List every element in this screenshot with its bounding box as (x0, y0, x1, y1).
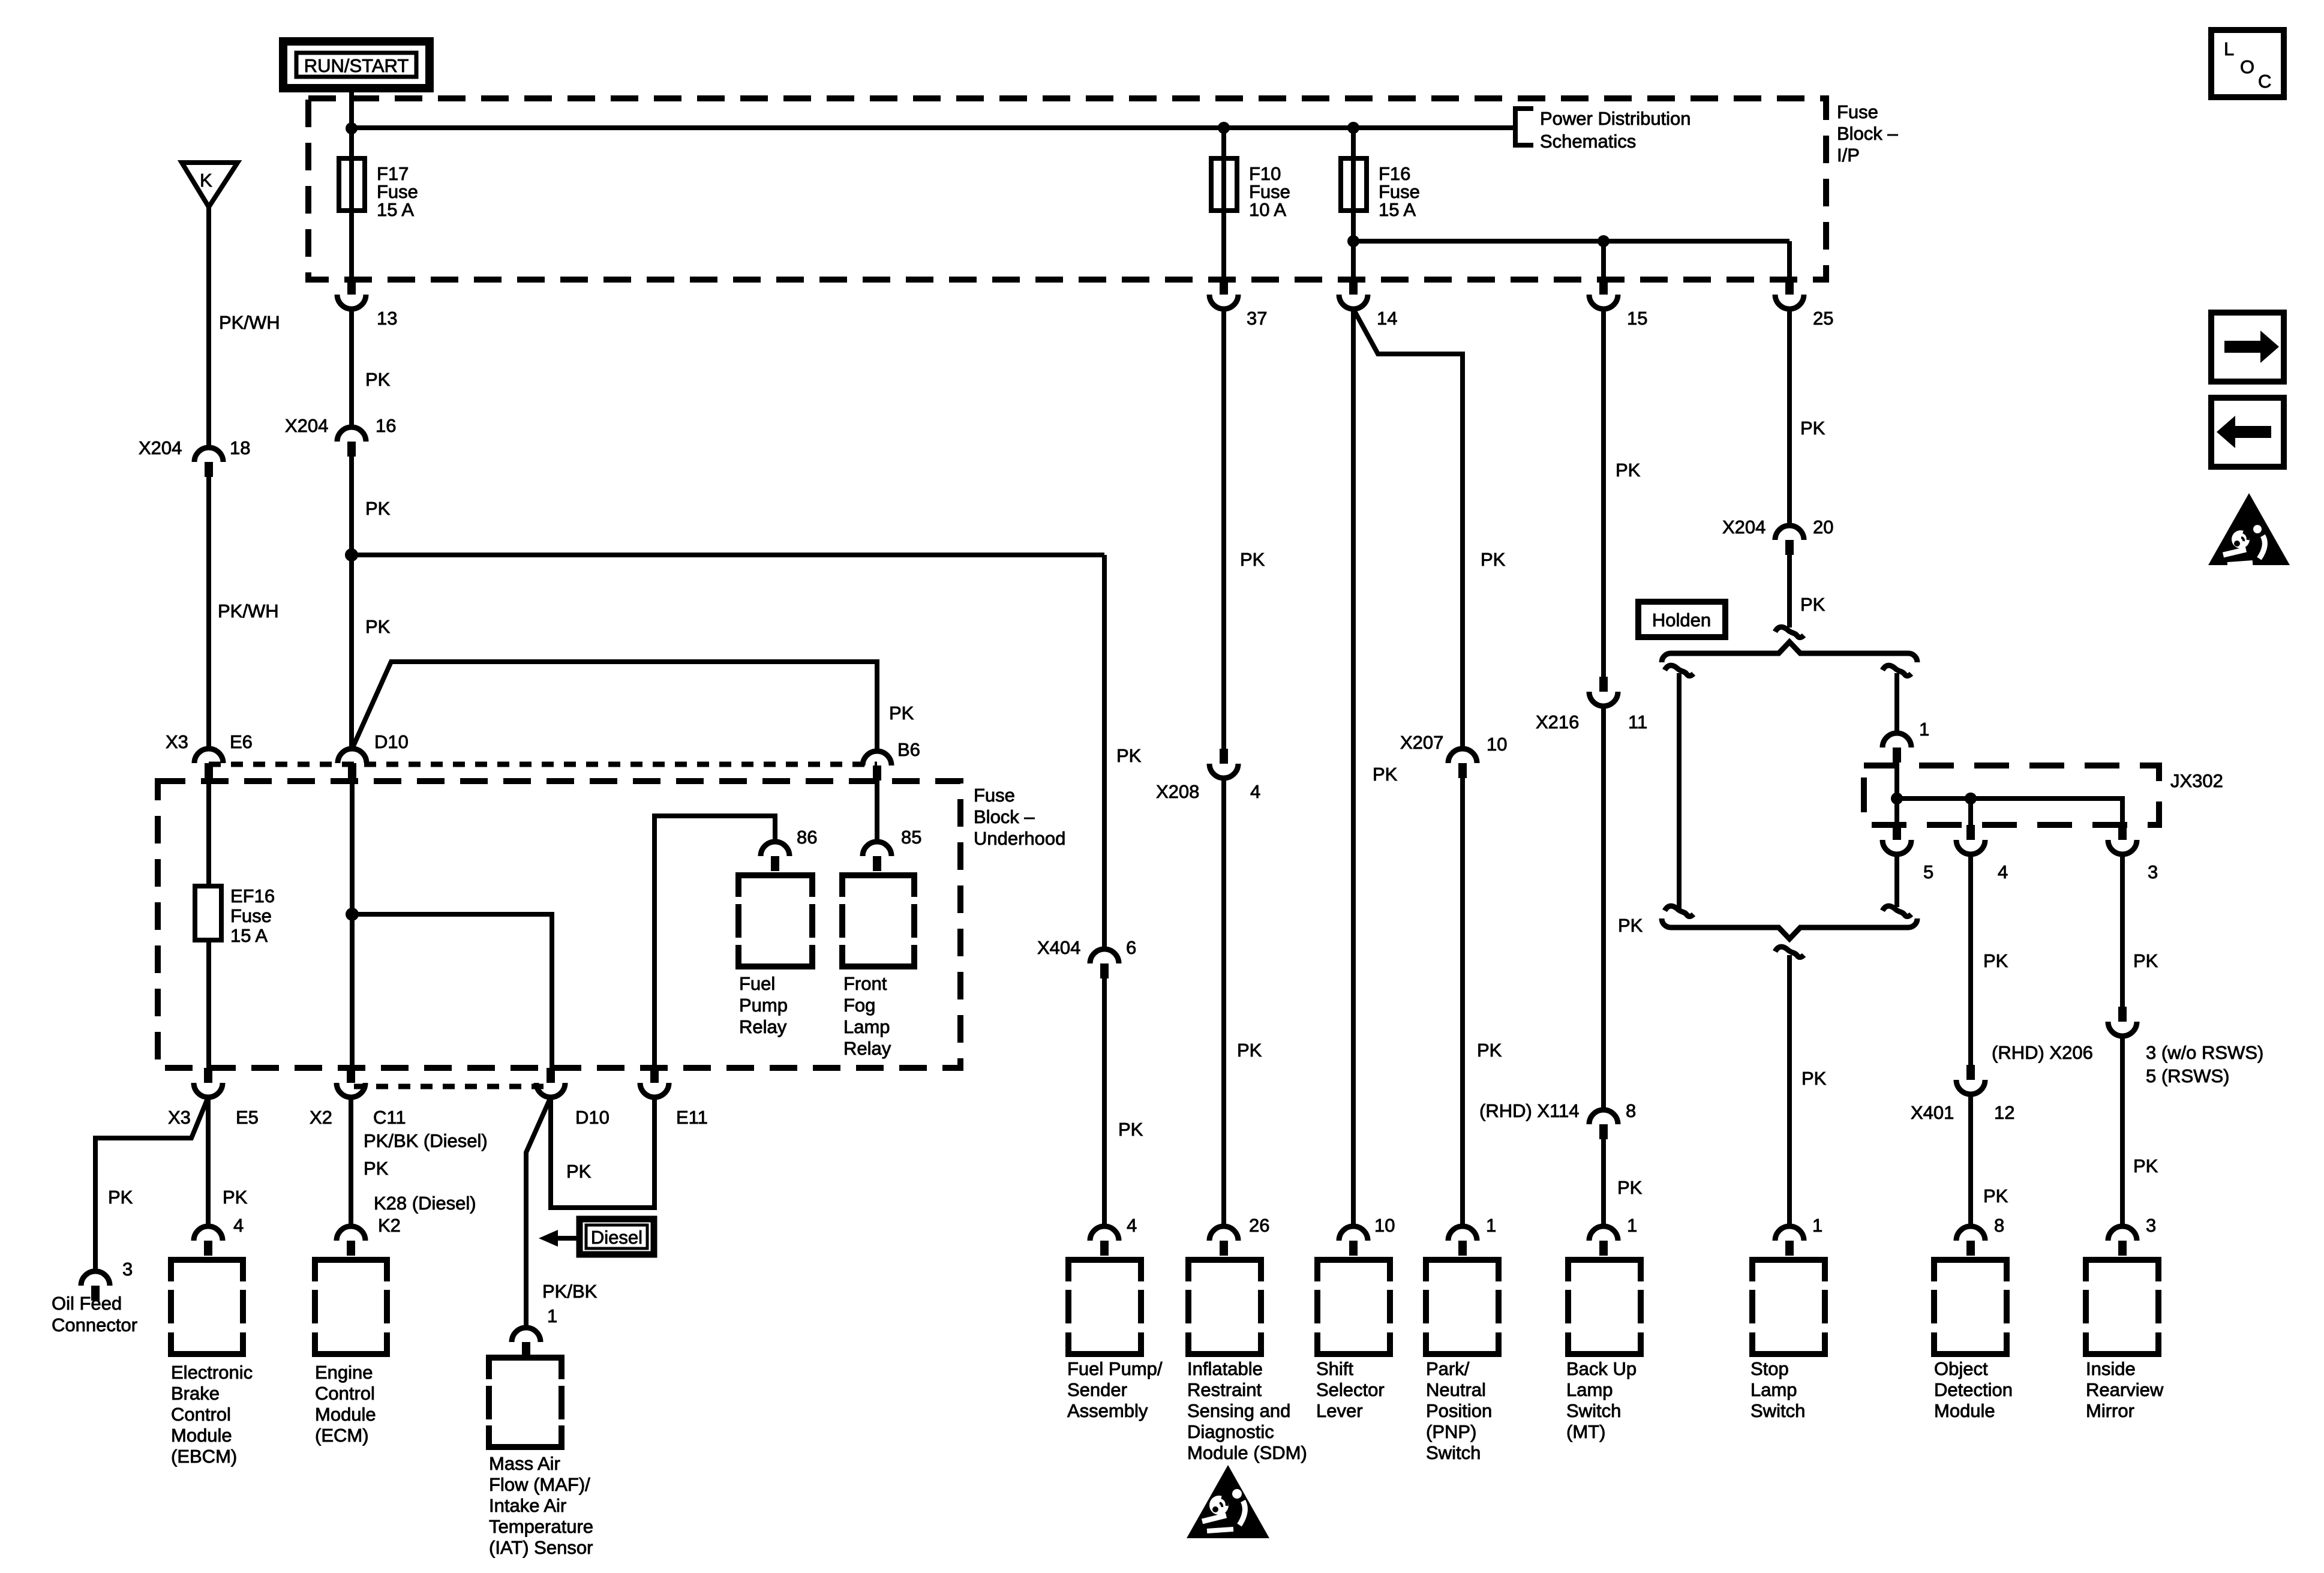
svg-text:X216: X216 (1536, 712, 1579, 733)
svg-text:(IAT) Sensor: (IAT) Sensor (489, 1537, 593, 1558)
wire E11 to fuel pump relay 86 (654, 816, 775, 1068)
svg-text:Module: Module (315, 1404, 376, 1425)
connector stop lamp switch pin 1 (1775, 1226, 1804, 1256)
connector X204 pin 20 (1775, 526, 1804, 555)
svg-text:Front: Front (843, 973, 887, 994)
junction F16 tap (1347, 122, 1359, 134)
component box SDM (1187, 1260, 1307, 1463)
wire X216 to X114 (PK) (1601, 706, 1606, 1110)
svg-text:25: 25 (1813, 308, 1833, 329)
svg-text:X401: X401 (1911, 1102, 1954, 1123)
svg-text:10: 10 (1487, 734, 1507, 755)
connector X3 pin E6 (194, 749, 223, 778)
wire X204-18 to E6 (PK/WH) (206, 477, 211, 749)
svg-text:PK: PK (223, 1187, 248, 1208)
wire X208 to SDM pin 26 (PK) (1221, 778, 1226, 1226)
svg-text:Rearview: Rearview (2086, 1379, 2164, 1400)
svg-text:15 A: 15 A (1379, 199, 1416, 220)
svg-text:Lamp: Lamp (1750, 1379, 1797, 1400)
fuse block I/P dashed outline (308, 98, 1826, 280)
svg-text:Fuel Pump/: Fuel Pump/ (1067, 1358, 1163, 1379)
svg-text:Switch: Switch (1566, 1400, 1621, 1421)
svg-text:Detection: Detection (1934, 1379, 2013, 1400)
svg-text:Schematics: Schematics (1540, 131, 1636, 152)
dotted connector row line (bottom) (354, 1084, 549, 1089)
symbol right arrow box (2211, 313, 2284, 382)
svg-text:15 A: 15 A (230, 925, 268, 946)
component box Fuel Pump / Sender Assembly (1067, 1260, 1163, 1421)
svg-text:Neutral: Neutral (1426, 1379, 1486, 1400)
wire JX302 pin3 to X206 (PK) (2120, 854, 2125, 1007)
svg-text:26: 26 (1249, 1215, 1269, 1236)
junction pin15 tap (1598, 235, 1610, 247)
svg-text:Lamp: Lamp (1566, 1379, 1613, 1400)
label Fuse Block - I/P (1837, 101, 1898, 166)
svg-text:85: 85 (901, 827, 921, 848)
wire ignition bus (horizontal) (352, 125, 1514, 130)
svg-text:X207: X207 (1400, 732, 1443, 753)
svg-text:Holden: Holden (1652, 610, 1711, 631)
label Oil Feed Connector (52, 1293, 137, 1335)
svg-text:Brake: Brake (171, 1383, 220, 1404)
svg-text:PK: PK (108, 1187, 133, 1208)
connector X401 pin 12 (1956, 1065, 1985, 1094)
wire F16 drop (1351, 128, 1356, 280)
dotted connector row line (top) (209, 762, 877, 767)
connector fuse block I/P pin 13 (337, 280, 366, 309)
connector MAF pin 1 (512, 1328, 541, 1357)
svg-text:PK: PK (364, 1158, 389, 1179)
svg-text:Block –: Block – (1837, 123, 1898, 144)
component box EBCM (171, 1260, 253, 1467)
svg-text:Switch: Switch (1750, 1400, 1805, 1421)
wire branch to X404 (PK) (352, 555, 1104, 949)
svg-text:PK/WH: PK/WH (219, 312, 280, 333)
svg-text:Inside: Inside (2086, 1358, 2136, 1379)
svg-text:X208: X208 (1156, 781, 1199, 802)
svg-text:37: 37 (1247, 308, 1267, 329)
svg-text:10: 10 (1374, 1215, 1395, 1236)
wire bundle left strand curl (bottom) (1665, 906, 1694, 916)
svg-text:16: 16 (376, 415, 396, 436)
svg-text:PK: PK (1801, 1068, 1827, 1089)
svg-text:Switch: Switch (1426, 1442, 1481, 1463)
svg-text:8: 8 (1626, 1100, 1636, 1121)
component box Shift Selector Lever (1316, 1260, 1390, 1421)
connector X204 pin 18 (194, 448, 223, 477)
svg-text:PK: PK (365, 616, 391, 637)
svg-text:18: 18 (230, 437, 250, 458)
svg-text:1: 1 (1627, 1215, 1637, 1236)
connector fuse block I/P pin 14 (1339, 280, 1368, 309)
wire pin25 to X204 pin 20 (PK) (1787, 309, 1792, 526)
junction F10 tap (1218, 122, 1230, 134)
svg-text:JX302: JX302 (2170, 770, 2223, 791)
fuse F16 15A (1341, 158, 1420, 220)
svg-text:PK: PK (1800, 594, 1825, 615)
svg-text:PK: PK (1240, 549, 1265, 570)
wire D10 to MAF sensor (PK/BK) (526, 1097, 551, 1328)
svg-text:Module (SDM): Module (SDM) (1187, 1442, 1307, 1463)
component box ECM (315, 1260, 387, 1446)
svg-text:X3: X3 (168, 1107, 191, 1128)
svg-text:Diesel: Diesel (591, 1227, 642, 1248)
svg-text:K2: K2 (378, 1215, 401, 1236)
node K (splice/antenna triangle) (182, 163, 238, 207)
wire X404 to fuel pump assembly (PK) (1102, 978, 1107, 1226)
wire F16 output branch to pins 15 and 25 (1353, 241, 1789, 280)
svg-text:D10: D10 (575, 1107, 609, 1128)
svg-text:PK: PK (889, 703, 914, 724)
svg-text:1: 1 (1812, 1215, 1822, 1236)
wire X206 to inside rearview mirror (PK) (2120, 1036, 2125, 1226)
svg-text:Lever: Lever (1316, 1400, 1363, 1421)
svg-text:PK: PK (1983, 950, 2008, 971)
svg-text:PK: PK (1617, 1177, 1643, 1198)
wire pin13 to X204 pin 16 (PK) (349, 309, 354, 427)
svg-text:PK/BK (Diesel): PK/BK (Diesel) (364, 1130, 488, 1151)
symbol airbag caution triangle (SDM) (1187, 1465, 1269, 1538)
svg-text:E6: E6 (230, 731, 253, 752)
svg-text:Power Distribution: Power Distribution (1540, 108, 1691, 129)
svg-text:13: 13 (377, 308, 397, 329)
svg-text:4: 4 (233, 1215, 244, 1236)
svg-text:(MT): (MT) (1566, 1421, 1605, 1442)
connector X2 pin C11 (337, 1068, 365, 1097)
svg-text:14: 14 (1377, 308, 1397, 329)
connector X206 (2108, 1007, 2137, 1036)
svg-text:Connector: Connector (52, 1314, 137, 1335)
svg-text:Module: Module (171, 1425, 232, 1446)
svg-text:Object: Object (1934, 1358, 1988, 1379)
svg-text:(PNP): (PNP) (1426, 1421, 1476, 1442)
connector fuse block I/P pin 25 (1775, 280, 1804, 309)
connector inside rearview mirror pin 3 (2108, 1226, 2137, 1256)
connector front fog relay pin 85 (863, 842, 891, 871)
connector JX302 pin 5 (1882, 825, 1911, 854)
svg-text:6: 6 (1126, 937, 1136, 958)
wire RUN/START drop to fuse F17 (349, 88, 354, 280)
wire JX302 pin4 to X401 (PK) (1968, 854, 1973, 1065)
symbol LOC reference box (2211, 30, 2284, 97)
svg-text:3: 3 (2148, 861, 2158, 882)
fuse F17 15A (339, 158, 418, 220)
node Diesel arrow head (539, 1230, 558, 1247)
svg-text:Mass Air: Mass Air (489, 1453, 560, 1474)
junction D10 internal branch (346, 908, 359, 921)
wire Diesel arrow (556, 1236, 580, 1241)
svg-text:3 (w/o RSWS): 3 (w/o RSWS) (2146, 1042, 2263, 1063)
svg-text:PK: PK (1118, 1119, 1143, 1140)
svg-text:PK/BK: PK/BK (542, 1281, 597, 1302)
wire pin14 to shift selector lever (PK) (1351, 309, 1356, 1226)
wire X114 to back up lamp switch (PK) (1601, 1139, 1606, 1226)
svg-text:PK: PK (1116, 745, 1142, 766)
wire bundle to stop lamp switch (PK) (1787, 955, 1792, 1226)
svg-text:Fuel: Fuel (739, 973, 775, 994)
svg-text:X3: X3 (166, 731, 188, 752)
svg-text:Electronic: Electronic (171, 1362, 253, 1383)
svg-text:Block –: Block – (974, 806, 1035, 827)
component box Stop Lamp Switch (1750, 1260, 1825, 1421)
svg-text:3: 3 (122, 1259, 133, 1280)
svg-text:D10: D10 (374, 731, 409, 752)
connector X204 pin 16 (337, 427, 366, 457)
svg-text:E11: E11 (676, 1107, 708, 1128)
connector object detection module pin 8 (1956, 1226, 1985, 1256)
svg-text:Temperature: Temperature (489, 1516, 593, 1537)
connector JX302 pin 3 (2108, 825, 2137, 854)
wire bundle left strand curl (top) (1665, 665, 1694, 676)
connector X216 pin 11 (1589, 677, 1618, 706)
svg-text:1: 1 (1486, 1215, 1496, 1236)
wire D10 to B6 (PK) (352, 662, 877, 751)
svg-text:1: 1 (1919, 719, 1929, 740)
wire bundle right strand curl (top) (1882, 665, 1911, 676)
svg-text:Lamp: Lamp (843, 1016, 890, 1037)
connector oil feed pin 3 (81, 1271, 110, 1301)
wire X204-20 to harness bundle (PK) (1787, 555, 1792, 628)
svg-text:Module: Module (1934, 1400, 1995, 1421)
junction block JX302 dashed outline (1864, 766, 2159, 825)
connector X404 pin 6 (1090, 949, 1119, 978)
node Power Distribution Schematics reference bracket (1515, 109, 1533, 145)
connector PNP pin 1 (1448, 1226, 1477, 1256)
connector back up lamp switch pin 1 (1589, 1226, 1618, 1256)
svg-text:O: O (2240, 56, 2254, 77)
fuse EF16 15A (195, 885, 275, 946)
svg-text:C11: C11 (373, 1107, 406, 1128)
svg-text:(EBCM): (EBCM) (171, 1446, 237, 1467)
wire D10 feed inside box (350, 777, 355, 1068)
wire stop lamp lead-out curl (1775, 947, 1804, 957)
svg-text:4: 4 (1250, 781, 1260, 802)
svg-text:K28 (Diesel): K28 (Diesel) (374, 1193, 476, 1214)
svg-text:Shift: Shift (1316, 1358, 1353, 1379)
connector JX302 pin 1 (1882, 733, 1911, 763)
wire E6 to EF16 to E5 (206, 777, 211, 1068)
junction JX302 pin4 tap (1965, 792, 1977, 804)
wire pin14 branch to X207 (PK) (1353, 309, 1463, 749)
wire bundle right strand (1894, 673, 1899, 733)
connector fuse block I/P pin 15 (1589, 280, 1618, 309)
wire E5 to EBCM pin 4 (PK) (206, 1097, 211, 1226)
svg-text:Mirror: Mirror (2086, 1400, 2134, 1421)
connector EBCM pin 4 (194, 1226, 223, 1256)
wire pin37 to X208 (PK) (1221, 309, 1226, 749)
svg-text:Relay: Relay (843, 1038, 891, 1059)
label Power Distribution Schematics (1540, 108, 1691, 152)
wire B6 to front fog lamp relay 85 (875, 777, 879, 842)
wire pin5 strand curl (1882, 906, 1911, 916)
node RUN/START (ignition feed box) (283, 41, 430, 88)
wire D10 to E11 jumper (PK) (551, 1097, 654, 1208)
connector X114 pin 8 (1589, 1110, 1618, 1139)
svg-text:Fuse: Fuse (1837, 101, 1878, 122)
component box Back Up Lamp Switch (1566, 1260, 1641, 1442)
wire internal branch to D10 bottom (352, 914, 552, 1068)
fuse F10 10A (1211, 158, 1290, 220)
svg-text:Restraint: Restraint (1187, 1379, 1262, 1400)
connector ECM pin K2 (337, 1226, 365, 1256)
svg-text:10 A: 10 A (1249, 199, 1286, 220)
svg-text:20: 20 (1813, 517, 1833, 538)
svg-text:X204: X204 (285, 415, 328, 436)
svg-text:C: C (2258, 71, 2271, 92)
svg-text:PK: PK (1983, 1185, 2008, 1206)
node Diesel flag box (580, 1219, 654, 1254)
wire X207 to PNP switch pin 1 (PK) (1460, 778, 1465, 1226)
svg-text:Back Up: Back Up (1566, 1358, 1637, 1379)
svg-text:Assembly: Assembly (1067, 1400, 1148, 1421)
connector X3 pin E5 (194, 1068, 223, 1097)
svg-text:PK: PK (1237, 1040, 1262, 1061)
junction F16 branch (1347, 235, 1359, 247)
connector fuel pump relay pin 86 (761, 842, 789, 871)
wire bundle left strand (1677, 673, 1682, 912)
svg-text:12: 12 (1994, 1102, 2014, 1123)
svg-text:Pump: Pump (739, 995, 788, 1016)
svg-text:PK: PK (566, 1161, 591, 1182)
svg-text:(RHD) X206: (RHD) X206 (1992, 1042, 2093, 1063)
svg-text:PK: PK (365, 369, 391, 390)
component box PNP Switch (1426, 1260, 1499, 1463)
relay box Front Fog Lamp Relay (842, 875, 914, 1059)
relay box Fuel Pump Relay (738, 875, 812, 1037)
connector shift selector pin 10 (1339, 1226, 1368, 1256)
svg-text:Fuse: Fuse (974, 785, 1015, 806)
svg-text:EF16: EF16 (230, 885, 275, 906)
svg-text:K: K (200, 170, 212, 191)
junction fuel pump branch (345, 548, 358, 562)
symbol left arrow box (2211, 398, 2284, 467)
svg-text:Position: Position (1426, 1400, 1492, 1421)
svg-text:11: 11 (1628, 712, 1647, 733)
svg-text:I/P: I/P (1837, 145, 1860, 166)
node harness bundle bottom brace (1662, 918, 1917, 939)
svg-text:5 (RSWS): 5 (RSWS) (2146, 1065, 2230, 1086)
wire pin15 to X216 (PK) (1601, 309, 1606, 677)
connector X207 pin 10 (1448, 749, 1477, 778)
svg-text:Engine: Engine (315, 1362, 373, 1383)
svg-text:PK: PK (2133, 950, 2158, 971)
component box MAF/IAT (489, 1358, 593, 1558)
svg-text:5: 5 (1923, 861, 1933, 882)
svg-text:Relay: Relay (739, 1016, 787, 1037)
svg-text:15: 15 (1627, 308, 1647, 329)
svg-text:Flow (MAF)/: Flow (MAF)/ (489, 1474, 590, 1495)
connector pin D10 (top) (338, 749, 367, 778)
svg-text:X204: X204 (1722, 517, 1765, 538)
svg-text:X404: X404 (1037, 937, 1080, 958)
junction JX302 pin5 tap (1891, 792, 1903, 804)
svg-text:Oil Feed: Oil Feed (52, 1293, 122, 1314)
svg-text:PK: PK (1481, 549, 1506, 570)
connector fuse block I/P pin 37 (1209, 280, 1238, 309)
connector X208 pin 4 (1209, 749, 1238, 778)
svg-text:PK: PK (1800, 418, 1825, 439)
connector SDM pin 26 (1209, 1226, 1238, 1256)
svg-text:(ECM): (ECM) (315, 1425, 369, 1446)
svg-text:Diagnostic: Diagnostic (1187, 1421, 1274, 1442)
wire C11 to ECM pin K2 (349, 1097, 353, 1226)
svg-text:Underhood: Underhood (974, 828, 1065, 849)
svg-text:Intake Air: Intake Air (489, 1495, 566, 1516)
svg-text:4: 4 (1998, 861, 2008, 882)
svg-text:(RHD) X114: (RHD) X114 (1479, 1100, 1580, 1121)
svg-text:Control: Control (171, 1404, 231, 1425)
svg-text:Selector: Selector (1316, 1379, 1385, 1400)
svg-text:PK: PK (1373, 764, 1398, 785)
wire X204-16 to D10 (PK) (349, 457, 354, 749)
wire bundle lead-in curl (1775, 627, 1804, 637)
symbol airbag caution triangle (margin) (2208, 493, 2290, 565)
wire JX302 internal bus (1897, 763, 2122, 825)
svg-text:3: 3 (2146, 1215, 2156, 1236)
svg-text:Park/: Park/ (1426, 1358, 1470, 1379)
svg-text:15 A: 15 A (377, 199, 414, 220)
svg-text:8: 8 (1994, 1215, 2004, 1236)
svg-text:X2: X2 (310, 1107, 332, 1128)
fuse block Underhood dashed outline (158, 781, 960, 1068)
svg-text:Stop: Stop (1750, 1358, 1789, 1379)
junction at RUN/START drop (346, 122, 358, 134)
svg-text:86: 86 (797, 827, 817, 848)
component box Object Detection Module (1934, 1260, 2013, 1421)
svg-text:Sensing and: Sensing and (1187, 1400, 1290, 1421)
connector pin D10 (bottom) (536, 1068, 565, 1097)
svg-text:L: L (2224, 38, 2234, 59)
svg-text:4: 4 (1127, 1215, 1137, 1236)
svg-text:Control: Control (315, 1383, 375, 1404)
node Holden flag box (1638, 602, 1725, 637)
svg-text:1: 1 (547, 1305, 557, 1326)
wire X401 to object detection module (PK) (1968, 1094, 1973, 1226)
label Fuse Block - Underhood (974, 785, 1065, 849)
connector JX302 pin 4 (1956, 825, 1985, 854)
svg-text:E5: E5 (236, 1107, 259, 1128)
svg-text:PK/WH: PK/WH (218, 601, 279, 622)
svg-text:PK: PK (1618, 915, 1643, 936)
wire K to X204 pin 18 (PK/WH) (206, 207, 211, 448)
connector pin B6 (863, 751, 891, 781)
wire F10 drop (1221, 128, 1226, 280)
svg-text:PK: PK (2133, 1155, 2158, 1176)
component box Inside Rearview Mirror (2086, 1260, 2164, 1421)
wire JX302 pin5 return strand (1894, 854, 1899, 907)
svg-text:PK: PK (1477, 1040, 1502, 1061)
svg-text:Fuse: Fuse (230, 905, 272, 926)
svg-text:Fog: Fog (843, 995, 875, 1016)
svg-text:B6: B6 (897, 739, 920, 760)
svg-text:X204: X204 (139, 437, 182, 458)
svg-text:PK: PK (365, 498, 391, 519)
svg-text:Inflatable: Inflatable (1187, 1358, 1263, 1379)
svg-text:PK: PK (1616, 460, 1641, 481)
svg-text:Sender: Sender (1067, 1379, 1127, 1400)
node harness bundle top brace (1662, 642, 1917, 662)
wire E5 to oil feed connector (PK) (95, 1097, 208, 1271)
svg-text:RUN/START: RUN/START (304, 55, 409, 76)
connector fuel pump pin 4 (1090, 1226, 1119, 1256)
connector pin E11 (640, 1068, 669, 1097)
